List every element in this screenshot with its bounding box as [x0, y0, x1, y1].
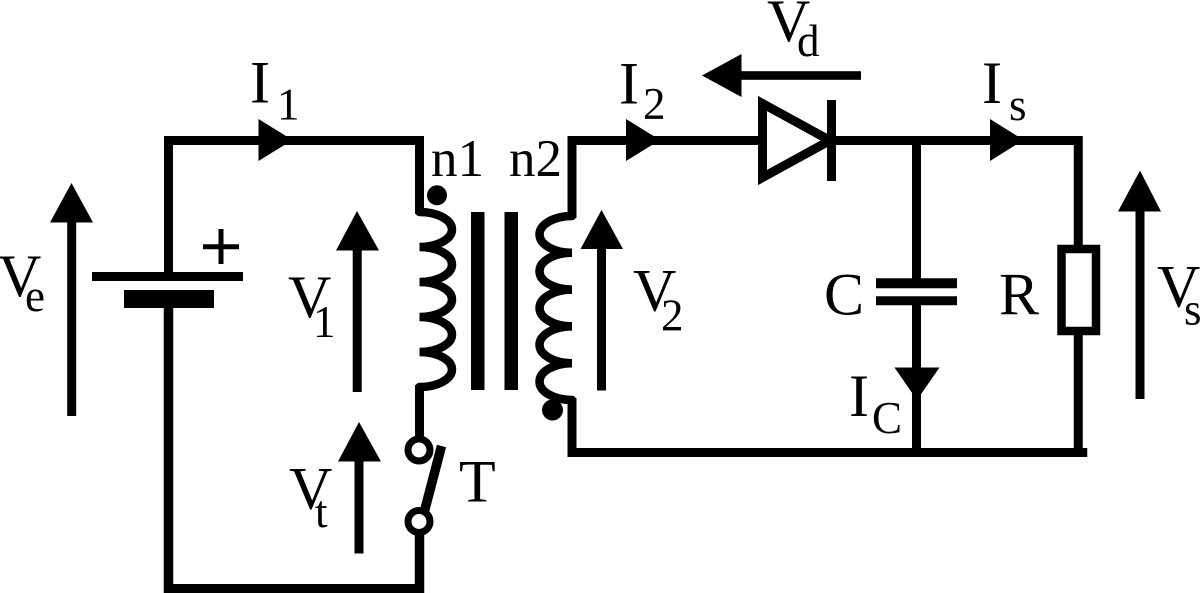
wire: diode cathode to top-right corner and down to resistor — [832, 141, 1079, 250]
svg-text:s: s — [1009, 80, 1027, 130]
svg-text:d: d — [797, 16, 820, 66]
svg-text:n1: n1 — [431, 130, 484, 188]
diode D triangle — [763, 104, 831, 178]
wire: secondary top to diode anode — [572, 141, 760, 219]
wire: left loop lower (battery bottom, bottom wire, switch bottom lead) — [169, 307, 420, 589]
svg-text:t: t — [315, 487, 328, 537]
transformer secondary winding n2 — [540, 216, 573, 400]
battery positive plate (long thin) — [92, 272, 243, 281]
voltage arrow Vd — [702, 54, 861, 97]
capacitor C top lead — [912, 141, 921, 279]
svg-text:1: 1 — [313, 297, 336, 347]
wire: right loop bottom — [572, 398, 1083, 453]
capacitor C bottom lead — [912, 305, 921, 453]
resistor R bottom lead — [1074, 331, 1083, 448]
current arrow I2 — [626, 119, 660, 161]
polarity dot n1 — [427, 185, 447, 205]
voltage arrow Vs — [1118, 171, 1161, 400]
svg-text:I: I — [250, 50, 270, 116]
svg-text:I: I — [619, 51, 639, 117]
current arrow IC — [895, 368, 940, 401]
svg-text:C: C — [824, 262, 864, 328]
wire: left loop upper (battery top to primary top) — [169, 141, 420, 274]
switch T — [408, 439, 442, 533]
svg-text:s: s — [1184, 285, 1200, 335]
svg-text:1: 1 — [277, 80, 300, 130]
resistor R body — [1062, 249, 1097, 331]
svg-text:T: T — [459, 449, 496, 515]
wire: primary bottom to switch — [415, 385, 424, 436]
svg-text:C: C — [872, 393, 902, 443]
capacitor C plates — [876, 278, 957, 288]
svg-text:I: I — [849, 363, 869, 429]
svg-text:2: 2 — [661, 291, 684, 341]
svg-text:n2: n2 — [509, 130, 562, 188]
svg-text:R: R — [999, 262, 1039, 328]
svg-text:2: 2 — [643, 79, 666, 129]
svg-text:I: I — [982, 50, 1002, 116]
voltage arrow V1 — [336, 211, 379, 392]
transformer primary winding n1 — [420, 212, 453, 387]
current arrow Is — [990, 119, 1024, 161]
current arrow I1 — [259, 119, 293, 161]
transformer core bars — [471, 212, 518, 390]
plus sign polarity marker — [203, 229, 239, 264]
battery negative plate (short thick) — [124, 290, 214, 308]
voltage arrow Ve — [50, 183, 93, 416]
polarity dot n2 — [542, 400, 563, 421]
diode D cathode bar — [827, 100, 836, 181]
svg-text:e: e — [25, 271, 45, 321]
voltage arrow V2 — [581, 210, 624, 391]
voltage arrow Vt — [338, 422, 381, 554]
